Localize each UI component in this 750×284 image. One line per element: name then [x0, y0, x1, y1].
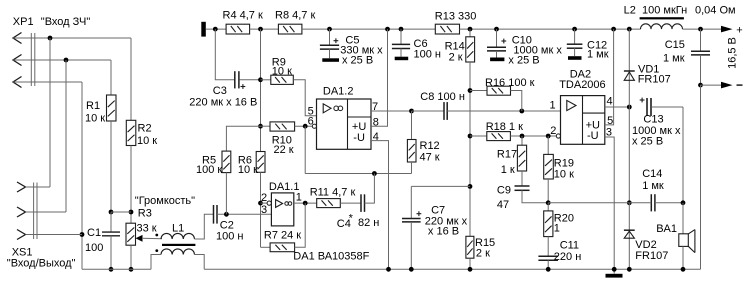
wire top rail seg5: [683, 28, 722, 30]
node rail DA2 pin5 junction: [611, 27, 616, 32]
resistor R12: [411, 111, 413, 140]
svg-text:C14: C14: [642, 168, 662, 180]
svg-text:C2: C2: [220, 219, 234, 231]
wire ground rail left: [82, 268, 151, 270]
wire DA2 pin4 out: [605, 106, 630, 108]
wire jumper C1-R3 node: [111, 211, 131, 213]
svg-text:х 25 В: х 25 В: [342, 54, 373, 66]
node R1/C1 junction: [109, 210, 114, 215]
L1 phase dot bottom: [155, 249, 158, 252]
svg-text:XS1: XS1: [12, 246, 33, 258]
capacitor C4: [340, 202, 361, 204]
svg-text:R11 4,7 к: R11 4,7 к: [310, 187, 356, 199]
inductor L2: [641, 24, 683, 29]
node XS1.3 junction: [80, 232, 85, 237]
wire XP1.1 row: [13, 37, 131, 39]
svg-text:2 к: 2 к: [449, 51, 463, 63]
speaker BA1: [682, 203, 684, 234]
svg-text:100 мкГн: 100 мкГн: [642, 5, 687, 17]
node R5 bottom junction: [224, 212, 229, 217]
connector XP1 cable bundle: [30, 33, 32, 86]
capacitor C2: [213, 205, 215, 224]
svg-text:10 к: 10 к: [238, 164, 258, 176]
resistor R17: [521, 136, 523, 145]
svg-text:R16 100 к: R16 100 к: [485, 77, 535, 89]
DA2 pin2 inverting circle: [556, 134, 560, 138]
node R2/R3 junction: [129, 210, 134, 215]
wire L1 top right lead to C2: [194, 214, 213, 239]
node C11 ground junction: [546, 267, 551, 272]
node pin4/VD1/C13 junction: [627, 105, 632, 110]
wire R16 right riser: [511, 91, 522, 112]
DA1.2 pin6 inverting circle: [312, 124, 316, 128]
svg-text:"Вход ЗЧ": "Вход ЗЧ": [41, 16, 91, 28]
ground bar C5: [322, 58, 339, 62]
resistor R16: [470, 90, 487, 92]
terminal bar input: [201, 22, 206, 37]
svg-text:FR107: FR107: [635, 250, 668, 262]
wire feedback row: [305, 173, 411, 175]
node pin3 ground junction: [612, 267, 617, 272]
wire R19 node to C14: [548, 202, 629, 204]
node C4 feedback junction: [372, 171, 377, 176]
node VD2 ground junction: [627, 267, 632, 272]
capacitor C13: [628, 107, 630, 203]
potentiometer R3: [126, 223, 136, 245]
svg-text:R18 1 к: R18 1 к: [486, 121, 523, 133]
diode VD1: [628, 29, 630, 107]
DA1.1 pin2 inverting circle: [261, 202, 268, 204]
wire top rail seg3: [302, 28, 435, 30]
wire XS1.3 row: [26, 234, 83, 236]
node pin6 junction: [303, 124, 308, 129]
node R19 top junction: [546, 134, 551, 139]
svg-text:R4 4,7 к: R4 4,7 к: [223, 10, 263, 22]
svg-text:R13 330: R13 330: [435, 11, 477, 23]
svg-text:TDA2006: TDA2006: [559, 79, 605, 91]
node rail C12 junction: [572, 27, 577, 32]
output plus arrow: [721, 26, 733, 33]
wire R18 to DA2 pin2: [510, 135, 556, 137]
svg-text:10 к: 10 к: [272, 66, 292, 78]
capacitor C6: [400, 29, 402, 44]
svg-text:C8 100 н: C8 100 н: [420, 91, 465, 103]
svg-text:R1: R1: [86, 100, 100, 112]
capacitor C11: [547, 237, 549, 257]
resistor R15: [466, 236, 474, 258]
svg-text:3: 3: [261, 204, 267, 216]
node C14 right junction: [681, 200, 686, 205]
resistor R6: [256, 152, 265, 173]
svg-text:"Громкость": "Громкость": [135, 195, 195, 207]
capacitor C9: [521, 171, 523, 186]
svg-text:R3: R3: [138, 208, 152, 220]
power amp DA2: [561, 96, 605, 145]
ground symbol: [606, 274, 623, 278]
node R19/R20 junction: [546, 200, 551, 205]
svg-text:х 25 В: х 25 В: [632, 135, 663, 147]
node C1 ground junction: [109, 267, 114, 272]
wire R7 right to pin1: [295, 203, 306, 247]
svg-text:C11: C11: [560, 240, 579, 252]
svg-text:100 н: 100 н: [414, 48, 441, 60]
wire bias column upper: [260, 29, 262, 151]
connector XP1 pin 1 arrow: [13, 33, 22, 44]
wire XS1.1 row: [26, 186, 51, 188]
R3 wiper arrow: [136, 235, 143, 242]
node rail C5 junction: [327, 27, 332, 32]
svg-text:0,04 Ом: 0,04 Ом: [695, 5, 736, 17]
node rail VD1 junction: [627, 27, 632, 32]
resistor R1: [110, 60, 112, 95]
wire R10 to pin6: [295, 125, 313, 127]
wire C2 to DA1.1 pin3: [217, 213, 271, 215]
node R18 left junction: [468, 134, 473, 139]
inductor L1 bottom winding: [161, 249, 194, 255]
node C15/minus junction: [698, 83, 703, 88]
wire riser XP1.3-XS1.3-gnd: [81, 82, 83, 269]
wire minus rail drop: [700, 85, 702, 269]
svg-text:R17: R17: [497, 149, 517, 161]
node rail/C3 junction: [213, 27, 218, 32]
wire DA1.2 pin4 to ground: [371, 141, 389, 270]
ground bar C12: [568, 56, 582, 60]
node pin4 ground junction: [386, 267, 391, 272]
svg-text:"Вход/Выход": "Вход/Выход": [7, 258, 76, 270]
resistor R8: [278, 24, 302, 34]
node C7 ground junction: [409, 267, 414, 272]
L1 core: [162, 244, 195, 246]
capacitor C7: [410, 186, 412, 218]
svg-text:10 к: 10 к: [85, 113, 105, 125]
node rail pin8 junction: [385, 27, 390, 32]
svg-text:82 н: 82 н: [358, 217, 379, 229]
svg-text:2: 2: [261, 192, 267, 204]
ground bar C6: [395, 57, 409, 61]
node pin1 junction: [303, 201, 308, 206]
connector XP1 pin 2 arrow: [13, 55, 22, 66]
svg-text:C1: C1: [87, 227, 101, 239]
svg-text:47: 47: [497, 199, 509, 211]
node pin7/R12 junction: [409, 109, 414, 114]
svg-text:L2: L2: [624, 5, 636, 17]
wire XS1.2 row: [26, 211, 67, 213]
resistor R4: [226, 24, 250, 34]
wire DA2 pin3 to ground: [605, 137, 614, 274]
resistor R20: [547, 203, 549, 211]
capacitor C3: [215, 29, 234, 80]
wire riser XP1.1-XS1.1: [49, 38, 51, 187]
node C7 row junction: [468, 184, 473, 189]
inductor L1 top winding: [161, 233, 194, 239]
wire DA1.2 pin8 to rail: [371, 29, 388, 126]
output minus arrow: [701, 84, 722, 86]
wire R14 column: [469, 62, 471, 236]
svg-text:1: 1: [296, 192, 302, 204]
svg-text:1 мк: 1 мк: [587, 49, 609, 61]
svg-text:22 к: 22 к: [274, 144, 294, 156]
node rail C6 junction: [399, 27, 404, 32]
op-amp DA1.1: [271, 193, 293, 226]
svg-text:4: 4: [607, 95, 613, 107]
connector XS1 pin 1 arrow: [17, 182, 26, 192]
svg-text:C9: C9: [497, 184, 511, 196]
svg-text:100: 100: [85, 242, 103, 254]
resistor R7: [270, 243, 295, 252]
resistor R9: [261, 79, 271, 81]
resistor R13: [435, 24, 459, 34]
svg-text:DA1 ВА10358F: DA1 ВА10358F: [293, 250, 369, 262]
resistor R18: [470, 135, 487, 137]
ground bar C10: [490, 58, 504, 62]
node XP1.1 junction: [48, 36, 53, 41]
svg-text:BA1: BA1: [656, 223, 677, 235]
svg-text:16,5 В: 16,5 В: [727, 37, 739, 69]
node rail R4/R8 junction: [258, 27, 263, 32]
node rail C10 junction: [494, 27, 499, 32]
connector XP1 pin 3 arrow: [13, 77, 22, 88]
wire ground rail main: [204, 268, 700, 270]
wire DA1.1 pin1 out: [294, 202, 317, 204]
wire pin6 feedback riser: [304, 126, 306, 173]
svg-text:DA1.2: DA1.2: [323, 85, 354, 97]
connector XS1 cable bundle: [33, 183, 35, 240]
L1 phase dot top: [155, 234, 158, 237]
svg-text:220 н: 220 н: [554, 251, 581, 263]
svg-text:100 н: 100 н: [216, 231, 243, 243]
svg-text:R2: R2: [138, 123, 152, 135]
wire C7 row: [411, 185, 470, 187]
svg-text:C3: C3: [213, 85, 227, 97]
diode VD2: [628, 203, 630, 269]
wire top rail seg4: [460, 28, 641, 30]
node R16 riser junction: [519, 109, 524, 114]
svg-text:1 мк: 1 мк: [642, 180, 664, 192]
svg-text:47 к: 47 к: [420, 152, 440, 164]
node R17 top junction: [520, 134, 525, 139]
svg-text:R19: R19: [554, 157, 574, 169]
capacitor C14: [650, 194, 652, 211]
wire L1 bottom left lead: [151, 255, 161, 270]
wire R1 to C1 node: [110, 121, 112, 212]
svg-text:10 к: 10 к: [137, 135, 157, 147]
capacitor C5: [329, 29, 331, 45]
wire R2 to R3: [130, 146, 132, 224]
connector XS1 pin 2 arrow: [17, 207, 26, 217]
node DA1.1 pin2 junction: [258, 201, 263, 206]
svg-text:1: 1: [550, 100, 556, 112]
svg-text:L1: L1: [172, 223, 184, 235]
svg-text:*: *: [349, 213, 354, 225]
wire R9 to pin5: [293, 80, 316, 116]
node BA1 ground junction: [681, 267, 686, 272]
svg-text:2 к: 2 к: [476, 247, 490, 259]
wire DA2 pin5 to rail: [605, 29, 614, 125]
wire C4 to feedback row: [365, 174, 375, 204]
svg-text:+: +: [736, 24, 742, 36]
wire L1 bottom right lead: [194, 255, 204, 270]
node R16 left junction: [468, 88, 473, 93]
node XP1.2 junction: [64, 58, 69, 63]
svg-text:R8 4,7 к: R8 4,7 к: [275, 10, 315, 22]
node rail R14 junction: [468, 27, 473, 32]
resistor R5: [226, 126, 260, 151]
svg-text:ХР1: ХР1: [13, 16, 34, 28]
wire top rail seg1: [206, 28, 226, 30]
wire C13 right drop: [682, 107, 684, 203]
node R3 ground junction: [129, 267, 134, 272]
svg-text:6: 6: [308, 116, 314, 128]
capacitor C12: [574, 29, 576, 44]
svg-text:2: 2: [550, 125, 556, 137]
node C3/R9 junction: [258, 77, 263, 82]
connector XS1 pin 3 arrow: [17, 230, 26, 240]
wire DA1.2 pin7 out: [371, 110, 412, 112]
svg-text:1 к: 1 к: [501, 164, 515, 176]
svg-text:R7 24 к: R7 24 к: [264, 229, 301, 241]
capacitor C10: [496, 29, 498, 47]
resistor R2: [130, 38, 132, 120]
wire XP1.2 row: [13, 59, 111, 61]
wire C8 to DA2 pin1: [447, 110, 560, 112]
svg-text:C15: C15: [665, 39, 685, 51]
wire to R7 left: [261, 246, 271, 248]
wire XP1.3 row: [13, 81, 82, 83]
svg-text:х 25 В: х 25 В: [508, 54, 539, 66]
wire R3 to ground rail: [130, 245, 132, 269]
resistor R11: [317, 199, 341, 208]
svg-text:33 к: 33 к: [137, 223, 157, 235]
resistor R14: [469, 29, 471, 37]
resistor R19: [547, 136, 549, 154]
svg-text:R12: R12: [420, 140, 440, 152]
wire top rail seg2: [250, 28, 279, 30]
svg-text:10 к: 10 к: [554, 169, 574, 181]
svg-text:1 мк: 1 мк: [663, 53, 685, 65]
svg-text:-U: -U: [587, 130, 599, 142]
resistor R10: [261, 125, 271, 127]
svg-text:220 мк х 16 В: 220 мк х 16 В: [189, 97, 257, 109]
capacitor C8: [443, 102, 445, 120]
node rail C15 junction: [698, 27, 703, 32]
node R15 ground junction: [468, 267, 473, 272]
svg-text:-U: -U: [353, 132, 365, 144]
svg-text:FR107: FR107: [638, 74, 671, 86]
wire bias column lower: [260, 172, 262, 247]
capacitor C1: [110, 212, 112, 232]
node R10/R5 junction: [258, 124, 263, 129]
svg-text:100 к: 100 к: [196, 164, 222, 176]
wire pin7 node to C8: [412, 110, 445, 112]
svg-text:C13: C13: [643, 114, 663, 126]
svg-text:1: 1: [554, 223, 560, 235]
node C14 left junction: [627, 200, 632, 205]
svg-text:х 16 В: х 16 В: [428, 225, 459, 237]
op-amp DA1.2: [317, 99, 372, 149]
wire riser XP1.2-XS1.2: [65, 60, 67, 212]
capacitor C15: [700, 29, 702, 51]
